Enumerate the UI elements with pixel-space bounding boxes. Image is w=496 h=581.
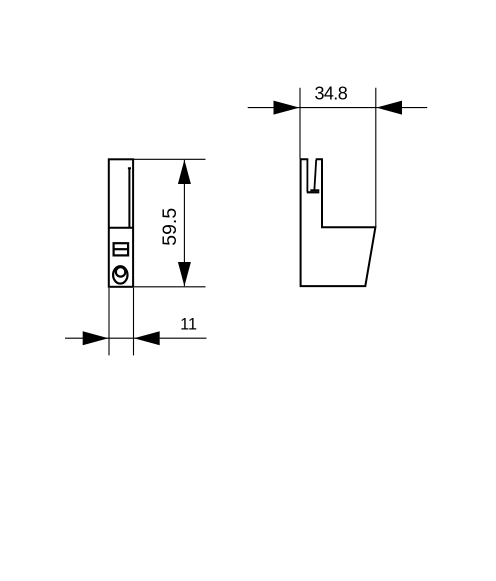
front view: terminal square — [114, 243, 129, 255]
dim 34.8: left arrowhead — [274, 101, 300, 115]
dim 59.5: top arrowhead — [178, 160, 191, 184]
dim 11: left arrowhead — [83, 331, 109, 345]
side profile: flexible clip line — [314, 160, 316, 190]
dim 59.5: bottom extension line — [133, 286, 205, 288]
front view: terminal square midline — [114, 248, 129, 250]
side profile: slot left wall — [306, 159, 308, 192]
dim 11: left extension line — [108, 288, 110, 355]
dim 59.5: bottom arrowhead — [178, 262, 191, 286]
side profile: main outline — [301, 159, 376, 286]
front view: screw inner circle — [116, 267, 126, 277]
front view: inner panel line — [128, 168, 131, 228]
side profile: clip foot — [310, 189, 319, 191]
side profile: slot bottom — [307, 191, 320, 193]
dim 59.5: top extension line — [133, 158, 205, 160]
front view: divider line — [109, 227, 133, 229]
front view: screw outer circle — [113, 266, 127, 283]
dim 59.5: dimension line — [183, 160, 185, 286]
front view: outer body rectangle — [109, 159, 133, 286]
dim 34.8: right arrowhead — [376, 101, 402, 115]
dim 11: right extension line — [133, 288, 135, 355]
svg-text:59.5: 59.5 — [159, 208, 181, 246]
svg-text:34.8: 34.8 — [314, 83, 347, 103]
dim 34.8: left extension line — [299, 88, 301, 159]
dim 34.8: dimension line — [248, 107, 428, 109]
dim 11: right arrowhead — [134, 331, 160, 345]
dim 34.8: right extension line — [375, 88, 377, 227]
svg-text:11: 11 — [180, 316, 197, 334]
dim 11: dimension line — [65, 337, 207, 339]
